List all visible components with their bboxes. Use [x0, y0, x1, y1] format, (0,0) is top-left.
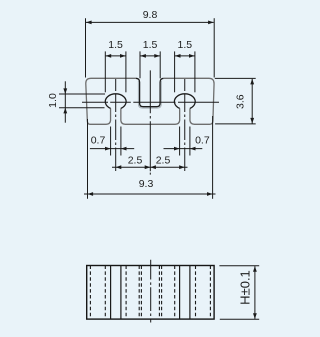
svg-text:9.8: 9.8 [143, 9, 158, 21]
svg-text:1.5: 1.5 [143, 39, 158, 51]
svg-text:1.5: 1.5 [177, 39, 192, 51]
svg-text:1.5: 1.5 [108, 39, 123, 51]
svg-text:0.7: 0.7 [91, 135, 106, 147]
svg-text:2.5: 2.5 [156, 154, 171, 166]
svg-text:1.0: 1.0 [47, 93, 59, 108]
svg-text:9.3: 9.3 [139, 178, 154, 190]
svg-text:H±0.1: H±0.1 [237, 270, 252, 305]
svg-text:3.6: 3.6 [235, 94, 247, 109]
svg-text:0.7: 0.7 [195, 135, 210, 147]
svg-text:2.5: 2.5 [128, 154, 143, 166]
